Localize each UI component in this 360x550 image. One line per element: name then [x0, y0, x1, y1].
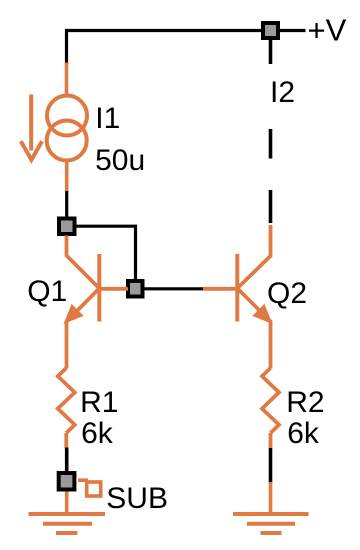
wire I1 bottom orange	[65, 160, 69, 192]
wire left rail orange top	[65, 63, 69, 97]
transistor Q2 emitter arrow	[252, 304, 272, 324]
node SUB (square terminal)	[59, 473, 75, 490]
wire R1 bottom black	[65, 448, 69, 473]
wire R1 bottom orange	[64, 433, 68, 449]
svg-text:Q1: Q1	[27, 275, 67, 308]
wire R2 bottom orange	[269, 433, 273, 449]
svg-text:50u: 50u	[95, 144, 145, 177]
node +V (square terminal)	[263, 23, 278, 38]
svg-text:I1: I1	[95, 102, 120, 135]
transistor Q1 base stub	[99, 287, 128, 291]
wire R2 bottom black	[269, 448, 273, 483]
node B (base junction)	[128, 281, 143, 297]
current source I1 symbol (two circles)	[47, 96, 87, 161]
svg-text:I2: I2	[270, 76, 295, 109]
wire node SUB to ground	[65, 492, 69, 515]
ground left	[29, 514, 105, 533]
svg-text:6k: 6k	[81, 417, 114, 450]
ground right	[233, 514, 309, 533]
svg-text:R1: R1	[80, 386, 118, 419]
svg-text:R2: R2	[286, 386, 324, 419]
wire I1 bottom black	[65, 191, 68, 218]
SUB connector stub	[78, 478, 88, 482]
transistor Q1 emitter with wire down	[67, 288, 100, 368]
I1 current direction arrow	[21, 95, 42, 160]
current source I2 dashed branch	[269, 40, 273, 223]
transistor Q1 emitter arrow	[64, 304, 84, 324]
transistor Q1 base bar	[97, 254, 101, 322]
wire top rail black: corner left to +V node	[67, 31, 262, 65]
wire black node B to Q2 base	[145, 287, 204, 290]
SUB port square	[87, 482, 101, 496]
svg-text:SUB: SUB	[106, 482, 168, 515]
wire black node A to node B (right then down)	[76, 226, 136, 280]
svg-text:6k: 6k	[287, 417, 320, 450]
svg-text:+V: +V	[308, 13, 347, 48]
wire R2 to ground orange	[269, 482, 273, 514]
wire orange Q2 collector up	[237, 225, 270, 288]
wire +V node to label stub	[280, 29, 306, 32]
svg-text:Q2: Q2	[267, 277, 307, 310]
resistor R1 zigzag	[58, 368, 75, 433]
transistor Q2 emitter with wire down	[237, 288, 270, 368]
transistor Q2 base stub	[203, 287, 237, 291]
resistor R2 zigzag	[262, 368, 279, 433]
transistor Q2 base bar	[235, 254, 239, 322]
wire orange node A to Q1 collector	[67, 236, 100, 289]
node A (collector junction)	[59, 219, 75, 235]
